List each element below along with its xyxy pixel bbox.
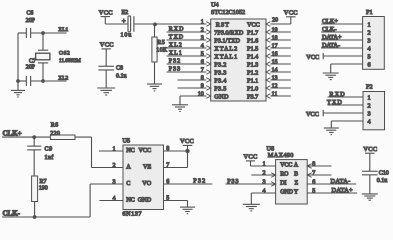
svg-text:10K: 10K <box>156 47 168 53</box>
svg-text:VO: VO <box>142 180 151 187</box>
svg-text:P1.5: P1.5 <box>247 45 258 52</box>
svg-text:20P: 20P <box>26 65 35 71</box>
svg-text:16: 16 <box>272 52 278 58</box>
svg-text:12: 12 <box>272 84 278 90</box>
svg-text:4: 4 <box>112 196 115 202</box>
svg-text:VCC: VCC <box>244 154 258 161</box>
svg-text:P1.3: P1.3 <box>247 61 258 68</box>
svg-text:P1.4: P1.4 <box>247 53 258 60</box>
svg-text:GND: GND <box>214 93 229 100</box>
svg-text:+: + <box>122 17 126 25</box>
svg-text:C9: C9 <box>45 147 53 153</box>
svg-text:4: 4 <box>262 189 265 195</box>
svg-text:R6: R6 <box>51 122 59 128</box>
svg-text:RST: RST <box>216 21 230 28</box>
svg-text:P1.0: P1.0 <box>247 85 258 92</box>
svg-text:VE: VE <box>143 164 151 171</box>
svg-text:CLK-: CLK- <box>3 210 21 218</box>
svg-text:0.1u: 0.1u <box>116 73 127 79</box>
svg-text:190: 190 <box>39 186 48 192</box>
svg-text:NC: NC <box>126 147 135 154</box>
svg-text:OS2: OS2 <box>59 51 70 57</box>
svg-text:VCC: VCC <box>247 21 260 28</box>
svg-text:10u: 10u <box>121 33 133 39</box>
svg-text:4: 4 <box>368 118 371 125</box>
svg-text:C7: C7 <box>29 58 36 64</box>
svg-text:GND: GND <box>280 190 294 196</box>
svg-text:6: 6 <box>201 60 204 66</box>
svg-text:9: 9 <box>201 84 204 90</box>
svg-text:VCC: VCC <box>138 147 151 154</box>
svg-text:220: 220 <box>50 131 60 137</box>
svg-text:1: 1 <box>262 162 265 168</box>
svg-text:VCC: VCC <box>99 9 113 16</box>
svg-text:P1: P1 <box>366 9 373 16</box>
svg-text:E2: E2 <box>122 10 129 16</box>
svg-text:P32: P32 <box>193 177 206 184</box>
svg-text:7: 7 <box>201 68 204 74</box>
svg-text:P3.4: P3.4 <box>214 77 226 84</box>
svg-text:C: C <box>126 180 130 187</box>
svg-text:1nf: 1nf <box>45 154 54 161</box>
svg-text:3: 3 <box>368 37 371 44</box>
svg-text:5: 5 <box>312 189 315 195</box>
svg-text:P3.2: P3.2 <box>214 61 226 68</box>
svg-text:19: 19 <box>272 28 278 34</box>
svg-text:DATA+: DATA+ <box>332 187 354 194</box>
svg-text:2: 2 <box>368 29 371 36</box>
svg-text:STC12C1052: STC12C1052 <box>211 9 245 16</box>
svg-text:1: 1 <box>201 20 204 26</box>
svg-text:XTAL1: XTAL1 <box>214 53 238 60</box>
svg-text:DATA-: DATA- <box>331 178 351 185</box>
svg-text:17: 17 <box>272 44 278 50</box>
svg-text:P1.1: P1.1 <box>247 77 258 84</box>
svg-text:11: 11 <box>272 92 278 98</box>
svg-text:XL2: XL2 <box>58 75 68 81</box>
svg-text:P1.6: P1.6 <box>247 37 258 44</box>
svg-text:XTAL2: XTAL2 <box>214 45 238 52</box>
svg-text:15: 15 <box>272 60 278 66</box>
svg-text:VCC: VCC <box>306 111 319 118</box>
svg-text:DI: DI <box>280 181 286 187</box>
svg-text:4: 4 <box>201 44 204 50</box>
svg-text:XL1: XL1 <box>58 27 68 33</box>
svg-text:5: 5 <box>368 53 371 60</box>
svg-text:3: 3 <box>201 36 204 42</box>
svg-text:11.0592M: 11.0592M <box>59 58 81 64</box>
svg-text:VCC: VCC <box>280 163 292 169</box>
svg-text:20: 20 <box>272 18 278 24</box>
svg-text:1: 1 <box>368 21 371 28</box>
svg-text:Y: Y <box>294 190 299 196</box>
svg-text:P3.3: P3.3 <box>214 69 226 76</box>
svg-text:10: 10 <box>198 92 204 98</box>
svg-text:B: B <box>294 172 298 178</box>
svg-text:A: A <box>126 164 131 171</box>
svg-text:VCC: VCC <box>100 42 114 49</box>
svg-text:Z: Z <box>294 181 298 187</box>
svg-text:P3.1/TXD: P3.1/TXD <box>214 37 240 44</box>
svg-text:VCC: VCC <box>180 138 194 145</box>
svg-text:NC: NC <box>126 197 135 204</box>
svg-text:P1.7: P1.7 <box>247 29 258 36</box>
svg-text:7P3.0/RXD: 7P3.0/RXD <box>214 29 244 36</box>
svg-text:2: 2 <box>112 163 115 169</box>
svg-text:6N137: 6N137 <box>122 211 142 218</box>
svg-text:8: 8 <box>312 162 315 168</box>
svg-text:GND: GND <box>138 197 152 204</box>
svg-text:2: 2 <box>262 171 265 177</box>
svg-text:P1.2: P1.2 <box>247 69 258 76</box>
svg-text:13: 13 <box>272 76 278 82</box>
svg-text:U5: U5 <box>123 138 131 145</box>
svg-text:3: 3 <box>112 180 115 186</box>
svg-text:CLK+: CLK+ <box>3 130 22 138</box>
svg-text:RO: RO <box>280 172 289 178</box>
svg-text:20P: 20P <box>26 18 35 24</box>
svg-text:3: 3 <box>368 110 371 117</box>
svg-text:R7: R7 <box>40 179 47 185</box>
svg-text:18: 18 <box>272 36 278 42</box>
svg-text:R5: R5 <box>157 40 165 46</box>
svg-text:7: 7 <box>312 171 315 177</box>
svg-text:MAX490: MAX490 <box>268 152 294 159</box>
svg-text:U4: U4 <box>211 2 219 9</box>
svg-text:6: 6 <box>312 180 315 186</box>
svg-text:14: 14 <box>272 68 278 74</box>
svg-text:VCC: VCC <box>363 146 377 153</box>
svg-text:3: 3 <box>262 180 265 186</box>
svg-text:P3.5: P3.5 <box>214 85 226 92</box>
svg-text:2: 2 <box>368 102 371 109</box>
svg-text:1: 1 <box>112 147 115 153</box>
svg-text:1: 1 <box>368 94 371 101</box>
svg-text:C6: C6 <box>27 10 34 16</box>
svg-text:6: 6 <box>368 61 371 68</box>
svg-text:4: 4 <box>368 45 371 52</box>
svg-text:2: 2 <box>201 28 204 34</box>
svg-text:P3.7: P3.7 <box>247 93 258 100</box>
svg-text:VCC: VCC <box>306 54 319 61</box>
svg-text:VCC: VCC <box>284 10 298 17</box>
svg-text:A: A <box>294 163 299 169</box>
svg-text:P2: P2 <box>366 84 373 91</box>
svg-text:8: 8 <box>201 76 204 82</box>
svg-text:0.1u: 0.1u <box>377 178 388 184</box>
svg-text:C8: C8 <box>116 66 123 72</box>
svg-text:5: 5 <box>201 52 204 58</box>
svg-text:C10: C10 <box>379 171 389 177</box>
